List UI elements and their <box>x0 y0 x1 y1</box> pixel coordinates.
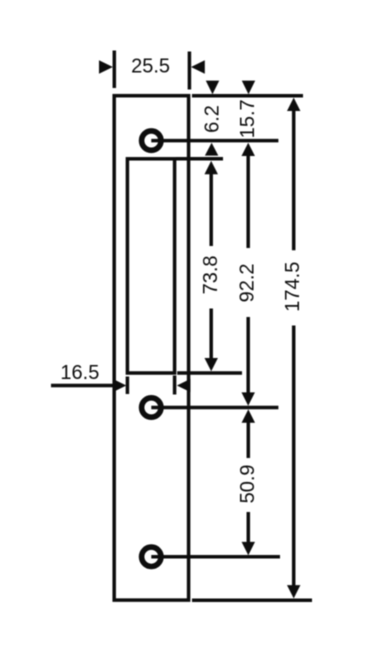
extension line slot top right <box>176 157 223 161</box>
arrow dim 73.8 top <box>205 161 218 174</box>
arrow dim 73.8 bottom <box>205 358 218 371</box>
svg-text:92.2: 92.2 <box>237 263 259 302</box>
arrow dim 6.2 bottom <box>205 143 218 156</box>
extension line plate left top <box>113 51 117 89</box>
arrow dim 25.5 left <box>99 60 113 73</box>
arrow dim 50.9 bottom <box>242 542 255 555</box>
extension line slot bottom right <box>177 371 242 375</box>
extension line slot right bottom <box>173 376 177 395</box>
arrow dim 50.9 top <box>242 409 255 422</box>
svg-text:16.5: 16.5 <box>60 362 99 384</box>
svg-text:15.7: 15.7 <box>237 99 259 138</box>
extension line plate bottom right <box>192 598 312 602</box>
hole H1 (top screw hole) <box>142 131 161 150</box>
arrow dim 25.5 right <box>191 60 205 73</box>
arrow dim 6.2 top <box>206 81 219 95</box>
svg-text:73.8: 73.8 <box>200 255 222 294</box>
extension line plate right top <box>188 52 192 90</box>
leader line dim 16.5 <box>51 384 114 388</box>
arrow dim 174.5 bottom <box>287 585 300 598</box>
hole H3 (bottom screw hole) <box>142 547 161 566</box>
extension line slot left bottom <box>126 377 130 395</box>
centerline hole H2 <box>151 406 278 410</box>
arrow dim 15.7 top <box>242 81 255 95</box>
svg-text:174.5: 174.5 <box>282 262 304 312</box>
dim line 50.9 <box>247 423 251 544</box>
centerline hole H3 <box>151 555 280 559</box>
arrow dim 16.5 left <box>113 379 127 392</box>
extension line plate top right <box>192 94 303 98</box>
dim line 174.5 <box>292 111 296 587</box>
slot (latch opening) <box>127 159 174 373</box>
svg-text:50.9: 50.9 <box>237 464 259 503</box>
dim line 92.2 <box>246 156 250 393</box>
arrow dim 16.5 right <box>177 379 191 392</box>
svg-text:6.2: 6.2 <box>202 105 224 133</box>
hole H2 (middle screw hole) <box>142 398 161 417</box>
arrow dim 92.2 bottom <box>242 392 255 405</box>
centerline hole H1 <box>151 139 278 143</box>
plate outline <box>114 96 188 600</box>
svg-text:25.5: 25.5 <box>131 55 170 77</box>
arrow dim 174.5 top <box>287 98 300 111</box>
arrow dim 92.2 top <box>242 143 255 156</box>
dim line 73.8 <box>209 173 213 359</box>
